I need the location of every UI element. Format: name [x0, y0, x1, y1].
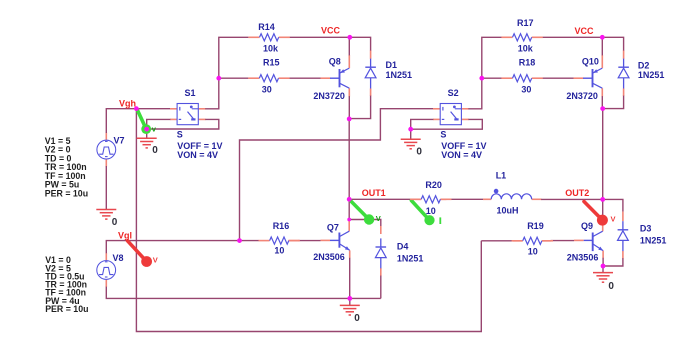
wire R19 left feed — [481, 240, 522, 242]
svg-text:D1: D1 — [386, 60, 398, 70]
svg-text:Q9: Q9 — [581, 221, 593, 231]
svg-text:R20: R20 — [425, 180, 442, 190]
svg-text:VCC: VCC — [321, 26, 341, 36]
wire V7 minus to ground — [105, 159, 107, 209]
node VCC right junction — [600, 35, 605, 40]
wire D4 branch from OUT1 rail — [349, 220, 381, 235]
svg-text:10k: 10k — [518, 43, 534, 53]
transistor Q9 (2N3506 NPN) — [567, 221, 603, 262]
svg-text:0: 0 — [112, 217, 118, 228]
node Vgl junction — [237, 238, 242, 243]
svg-text:1N251: 1N251 — [397, 254, 424, 264]
V7 pulse parameters — [45, 136, 88, 198]
wire Q7 ground stem — [349, 298, 351, 305]
svg-text:10: 10 — [528, 247, 538, 257]
svg-text:2N3506: 2N3506 — [567, 252, 599, 262]
svg-text:Vgh: Vgh — [119, 98, 136, 108]
svg-text:1N251: 1N251 — [640, 235, 667, 245]
voltage probe (red) at OUT2 — [584, 202, 616, 226]
node Q9 emitter ground junction — [601, 264, 606, 269]
svg-text:0: 0 — [416, 146, 422, 157]
svg-text:30: 30 — [262, 84, 272, 94]
resistor R17 (10k) — [501, 18, 542, 53]
svg-text:R19: R19 — [527, 221, 544, 231]
voltage probe (green) at Vgh — [138, 110, 157, 134]
svg-text:10: 10 — [426, 206, 436, 216]
svg-text:30: 30 — [521, 84, 531, 94]
svg-text:D3: D3 — [640, 223, 652, 233]
wire S1 switch return wrap to ground node — [147, 119, 219, 129]
wire Q9 ground stem — [602, 266, 604, 272]
resistor R16 (10) — [259, 221, 300, 256]
svg-text:S: S — [440, 130, 446, 140]
ground 0 at S2 — [401, 139, 423, 157]
wire Vgh net: V7 plus up and right to S1 control+ — [106, 109, 177, 141]
resistor R18 (30) — [501, 58, 542, 95]
wire D1 bottom to Q8 collector junction — [351, 89, 371, 119]
svg-text:R18: R18 — [519, 58, 536, 68]
wire V8 minus bottom rail to D4 bottom — [106, 279, 381, 298]
node Q10 collector junction — [600, 106, 605, 111]
diode D2 (1N251) — [618, 51, 664, 89]
svg-text:S: S — [177, 130, 183, 140]
wire OUT1 row: OUT1 node to R20 — [351, 198, 422, 200]
svg-text:V7: V7 — [114, 136, 125, 146]
wire R20 to L1 — [440, 198, 491, 200]
node D4 tap junction — [347, 218, 351, 222]
net label VCC left — [321, 26, 341, 36]
svg-text:0: 0 — [354, 313, 360, 324]
wire S2 control- to ground node — [411, 119, 441, 129]
svg-text:2N3720: 2N3720 — [566, 91, 598, 101]
ground 0 below V7 — [96, 210, 118, 229]
voltage source V7 (pulse) — [97, 136, 125, 159]
node Vgh junction — [134, 106, 139, 111]
current probe (green) at R20 — [411, 201, 441, 226]
wire R16 right to Q7 base — [288, 239, 330, 241]
wire Q8 emitter to VCC node — [348, 37, 350, 68]
wire D3 bottom to Q9 emitter junction — [604, 251, 623, 266]
node S1 ground junction — [144, 127, 149, 132]
svg-text:V: V — [611, 215, 616, 224]
node R18 left junction — [479, 76, 484, 81]
svg-text:PER = 10u: PER = 10u — [45, 188, 88, 198]
node Q8 collector junction — [347, 117, 352, 122]
node OUT2 junction — [600, 197, 605, 202]
wire D4 bottom segment — [380, 268, 382, 298]
svg-text:OUT2: OUT2 — [565, 188, 589, 198]
ground 0 below Q9 — [593, 273, 614, 292]
svg-text:Q8: Q8 — [329, 57, 341, 67]
node OUT1 junction — [347, 197, 352, 202]
svg-text:D4: D4 — [397, 242, 409, 252]
wire R18 left to vertical — [482, 77, 502, 79]
node Q7 emitter ground junction — [347, 296, 352, 301]
svg-text:VON = 4V: VON = 4V — [177, 150, 218, 160]
transistor Q8 (2N3720 PNP) — [313, 57, 349, 101]
voltage probe (green) at OUT1 — [350, 201, 381, 225]
wire OUT2 rail down from Q10 junction to Q9 collector — [602, 109, 604, 232]
net label OUT1 — [362, 188, 386, 198]
wire D2 bottom to Q10 collector junction — [604, 89, 624, 109]
svg-text:PER = 10u: PER = 10u — [45, 304, 88, 314]
svg-text:10: 10 — [274, 246, 284, 256]
resistor R15 (30) — [248, 58, 289, 95]
svg-text:0: 0 — [152, 145, 158, 156]
node R15 left junction — [216, 76, 221, 81]
svg-text:V: V — [153, 256, 158, 265]
wire Q7 emitter to ground rail — [349, 250, 351, 298]
wire Vgh long feed: down left side, along bottom rail, up to R19 — [136, 109, 481, 332]
node S2 ground junction — [408, 127, 413, 132]
ground 0 at S1 — [137, 138, 159, 156]
diode D3 (1N251) — [618, 221, 667, 251]
wire Q9 emitter to ground node — [602, 251, 604, 266]
wire Q8 collector down to junction — [348, 88, 350, 119]
svg-text:Q10: Q10 — [582, 57, 599, 67]
resistor R20 (10) — [410, 180, 451, 216]
svg-text:R15: R15 — [263, 58, 280, 68]
wire S1 switch out up to R14/R15 left — [198, 37, 248, 109]
wire R15 right to Q8 base — [289, 77, 331, 79]
wire L1 to OUT2 node — [532, 198, 602, 200]
svg-text:2N3506: 2N3506 — [313, 252, 345, 262]
inductor L1 (10uH) — [491, 170, 531, 215]
svg-text:VCC: VCC — [575, 26, 595, 36]
resistor R14 (10k) — [248, 22, 289, 54]
svg-text:10k: 10k — [263, 44, 279, 54]
V8 pulse parameters — [45, 255, 88, 314]
net label Vgl — [118, 231, 132, 241]
wire S2 switch return wrap to ground node — [411, 119, 483, 129]
wire OUT1 rail down from Q8 junction to Q7 collector — [348, 119, 350, 231]
switch S1 (voltage controlled) — [177, 88, 223, 160]
wire R18 right to Q10 base — [542, 77, 583, 79]
net label Vgh — [119, 98, 136, 108]
svg-text:1N251: 1N251 — [638, 70, 665, 80]
svg-text:0: 0 — [608, 281, 614, 292]
wire R15 left to vertical — [219, 77, 249, 79]
net label OUT2 — [565, 188, 589, 198]
transistor Q10 (2N3720 PNP) — [566, 57, 602, 101]
resistor R19 (10) — [512, 221, 553, 257]
svg-text:R14: R14 — [258, 22, 275, 32]
wire S2 control feed: junction up and over to S2 control+ — [240, 109, 441, 241]
wire S2 ground stem — [410, 129, 412, 139]
svg-text:OUT1: OUT1 — [362, 188, 386, 198]
svg-text:S2: S2 — [448, 88, 459, 98]
wire VCC right rail: R17 right to VCC node to D2 top — [542, 37, 623, 51]
voltage probe (red) at Vgl — [128, 241, 158, 267]
svg-text:V: V — [376, 214, 381, 223]
net label VCC right — [575, 26, 595, 36]
wire D3 branch from OUT2 row — [604, 199, 623, 221]
wire VCC left rail: R14 right to VCC node to D1 top — [288, 37, 370, 51]
wire Vgl net: V8 plus right to R16 and S2 control feed corner — [106, 241, 258, 261]
svg-text:V8: V8 — [113, 253, 124, 263]
svg-text:Q7: Q7 — [327, 222, 339, 232]
svg-text:R17: R17 — [517, 18, 534, 28]
wire S2 switch out up to R17/R18 left — [462, 37, 502, 109]
svg-text:VON = 4V: VON = 4V — [441, 150, 482, 160]
svg-text:D2: D2 — [638, 60, 650, 70]
svg-text:S1: S1 — [185, 88, 196, 98]
svg-text:10uH: 10uH — [497, 206, 519, 216]
transistor Q7 (2N3506 NPN) — [313, 222, 350, 262]
ground 0 below Q7 — [340, 305, 360, 324]
diode D1 (1N251) — [365, 51, 412, 89]
switch S2 (voltage controlled) — [440, 88, 486, 160]
voltage source V8 (pulse) — [97, 253, 124, 279]
svg-text:L1: L1 — [496, 170, 507, 180]
svg-text:2N3720: 2N3720 — [313, 91, 345, 101]
wire R19 right to Q9 base — [542, 239, 584, 241]
wire S1 ground stem — [146, 129, 148, 139]
svg-text:1N251: 1N251 — [386, 70, 413, 80]
wire S1 control- to ground node — [147, 119, 177, 129]
node VCC left junction — [347, 35, 352, 40]
svg-text:R16: R16 — [273, 221, 290, 231]
wire Q10 emitter to VCC node — [601, 37, 603, 68]
wire Q10 collector down to junction — [601, 88, 603, 108]
svg-text:Vgl: Vgl — [118, 231, 132, 241]
diode D4 (1N251) — [375, 238, 423, 268]
